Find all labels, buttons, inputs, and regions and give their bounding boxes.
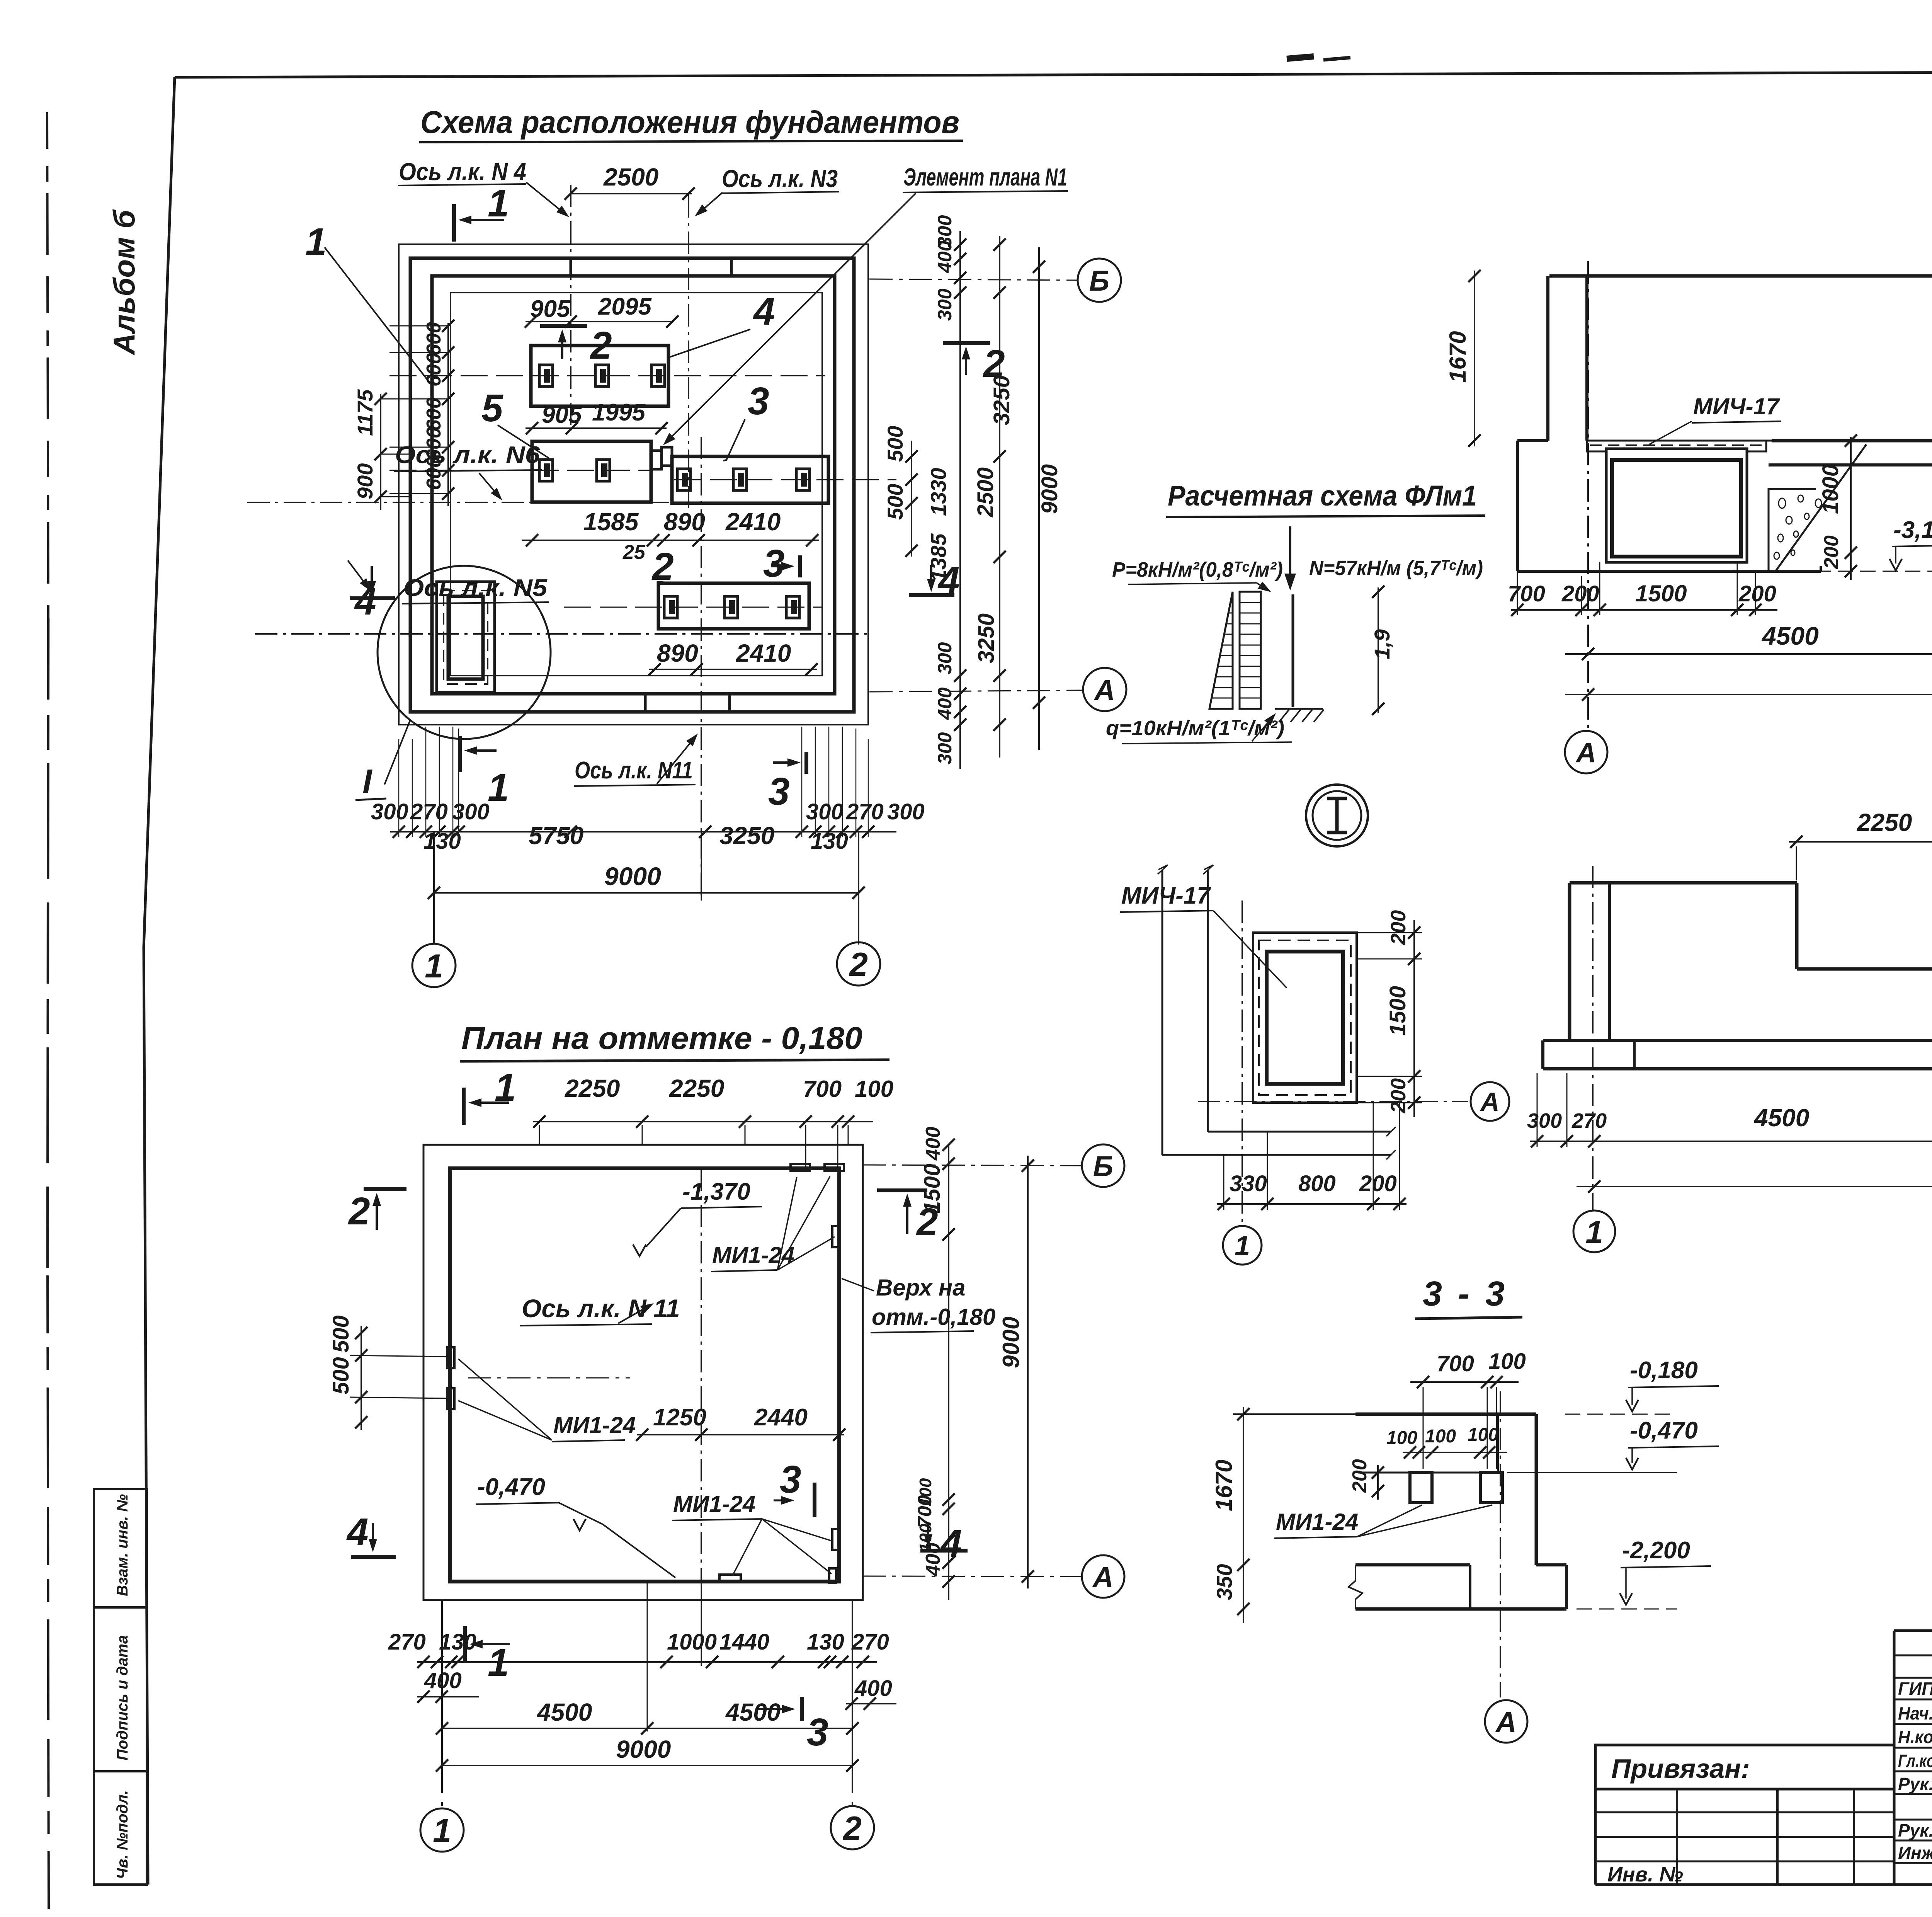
svg-text:700: 700	[803, 1076, 842, 1102]
svg-text:МИЧ-17: МИЧ-17	[1693, 393, 1780, 419]
horizontal axis el3	[674, 479, 896, 480]
svg-text:1670: 1670	[1211, 1460, 1237, 1511]
horizontal axis el2	[564, 607, 823, 608]
svg-text:600: 600	[423, 456, 445, 490]
svg-text:1385: 1385	[926, 533, 951, 582]
svg-text:4: 4	[753, 290, 775, 333]
s33 level -2,200	[1577, 1537, 1711, 1609]
detail I marker	[1306, 785, 1368, 846]
detail walls vertical	[1158, 865, 1213, 1155]
s22 dims row1	[1527, 1073, 1932, 1147]
right dim col 2	[926, 215, 966, 769]
svg-text:400: 400	[854, 1676, 892, 1701]
svg-text:2500: 2500	[973, 467, 998, 518]
sidebar cell Инв.№подл.	[94, 1771, 147, 1885]
privyazan grid	[1595, 1789, 1894, 1885]
svg-text:400: 400	[934, 240, 956, 273]
plan outer wall line	[399, 244, 868, 725]
svg-text:2250: 2250	[1857, 809, 1912, 836]
svg-text:9000: 9000	[604, 862, 661, 890]
svg-text:100: 100	[1488, 1349, 1526, 1374]
svg-text:600: 600	[423, 353, 445, 386]
svg-text:270: 270	[410, 799, 448, 824]
svg-text:890: 890	[664, 508, 705, 536]
svg-text:2: 2	[590, 324, 612, 367]
svg-text:1: 1	[1235, 1231, 1250, 1262]
svg-text:-3,100: -3,100	[1893, 517, 1932, 543]
s22 footing verticals	[1543, 1040, 1932, 1069]
bp bottom dims 400s	[417, 1668, 896, 1710]
load arrow N	[1284, 526, 1296, 591]
svg-text:800: 800	[1298, 1171, 1336, 1196]
svg-text:1585: 1585	[583, 508, 639, 536]
svg-text:1995: 1995	[592, 399, 646, 426]
heading Схема расположения фундаментов	[419, 105, 963, 142]
svg-text:300: 300	[806, 799, 844, 824]
plan wall thick inner	[432, 276, 835, 694]
horizontal axis el4	[389, 375, 825, 376]
axis line 2 below plan	[858, 832, 859, 945]
pit МИЧ-17 plan box	[437, 582, 495, 692]
svg-text:400: 400	[922, 1127, 944, 1161]
s33 top line	[1233, 1413, 1536, 1415]
title block signature grid	[1894, 1631, 1932, 1885]
section mark 1 bottom bp	[465, 1626, 510, 1684]
axis label Ось л.к.N4	[398, 158, 569, 217]
element 3 rect	[662, 447, 828, 503]
svg-text:I: I	[362, 762, 372, 800]
plan inner wall line	[451, 293, 822, 676]
drawing frame left border	[144, 77, 175, 1885]
svg-text:Гл.констр: Гл.констр	[1898, 1751, 1932, 1771]
svg-text:Б: Б	[1093, 1150, 1113, 1182]
bp axis extensions	[442, 1582, 852, 1808]
svg-text:300: 300	[1527, 1109, 1562, 1132]
svg-text:270: 270	[388, 1629, 426, 1655]
bottom dim cluster row	[371, 799, 925, 854]
bp horizontal axis stub	[468, 1377, 630, 1379]
dim 1,9	[1370, 586, 1394, 715]
svg-text:1500: 1500	[920, 1164, 945, 1214]
privyazan box	[1595, 1745, 1894, 1789]
bottom dim extension lines	[399, 727, 868, 837]
svg-text:2250: 2250	[669, 1074, 724, 1102]
s33 axis circle А	[1485, 1700, 1527, 1743]
section mark 2 left bp	[348, 1189, 406, 1233]
dim 905 2095	[525, 293, 679, 328]
svg-text:P=8кН/м²(0,8ᵀᶜ/м²): P=8кН/м²(0,8ᵀᶜ/м²)	[1112, 558, 1283, 581]
axis circle Б top plan	[869, 259, 1121, 302]
axis circle 1 top plan	[412, 944, 456, 987]
detail tub inner	[1267, 952, 1343, 1084]
bottom plan top dims	[533, 1074, 893, 1171]
section mark 3 inside bp	[774, 1458, 815, 1517]
svg-text:А: А	[1092, 1561, 1113, 1593]
title block role/name texts	[1898, 1677, 1932, 1863]
detail dim right	[1357, 910, 1422, 1117]
s22 left pier	[1570, 883, 1609, 1040]
svg-text:300: 300	[887, 799, 925, 824]
bottom dim 9000 row	[428, 862, 865, 899]
album label	[107, 209, 141, 356]
s11 bottom slab	[1769, 441, 1932, 465]
section mark 4 right	[909, 559, 960, 602]
svg-text:А: А	[1480, 1087, 1499, 1117]
bp МИ1-24 b	[458, 1359, 636, 1442]
bp wall plate bottom	[719, 1575, 741, 1582]
wall column line	[1292, 594, 1294, 707]
axis label Ось л.к.N11	[574, 734, 698, 786]
svg-text:1500: 1500	[1385, 986, 1410, 1036]
svg-text:МИЧ-17: МИЧ-17	[1121, 882, 1211, 909]
bp axis circle Б	[863, 1144, 1124, 1187]
svg-text:Взам. инв. №: Взам. инв. №	[114, 1494, 131, 1596]
bp dim 1250 2440	[636, 1404, 845, 1441]
detail axis vertical	[1242, 901, 1243, 1223]
left dim column 600s	[423, 320, 454, 506]
bp level -0,470	[476, 1474, 675, 1578]
svg-text:200: 200	[1820, 535, 1843, 569]
s22 dim 2250 2250	[1789, 808, 1932, 880]
svg-text:5750: 5750	[529, 822, 583, 850]
svg-text:МИ1-24: МИ1-24	[673, 1491, 755, 1517]
svg-text:130: 130	[807, 1629, 844, 1655]
inventory label	[1607, 1863, 1683, 1886]
svg-text:1: 1	[305, 220, 327, 264]
svg-text:Рук.гр.: Рук.гр.	[1898, 1820, 1932, 1840]
svg-text:2: 2	[849, 946, 868, 983]
section mark 1 top bp	[464, 1066, 516, 1125]
heading 3-3	[1415, 1275, 1522, 1319]
s33 dim 700 100	[1410, 1349, 1526, 1469]
bottom plan inner wall	[450, 1168, 839, 1582]
svg-text:300: 300	[371, 799, 408, 824]
s11 pit walls	[1517, 441, 1821, 571]
paper scan left edge	[47, 112, 49, 1909]
axis circle 2 top plan	[837, 942, 880, 986]
svg-text:Расчетная схема ФЛм1: Расчетная схема ФЛм1	[1168, 480, 1477, 512]
svg-text:ГИП: ГИП	[1898, 1679, 1932, 1699]
s33 bottom	[1355, 1565, 1566, 1609]
svg-text:100: 100	[1386, 1428, 1417, 1448]
svg-text:Верх на: Верх на	[876, 1275, 966, 1301]
s33 anchors	[1410, 1473, 1502, 1503]
svg-text:1670: 1670	[1445, 331, 1471, 383]
bp МИ1-24 c	[672, 1491, 832, 1576]
svg-text:1000: 1000	[1818, 464, 1843, 514]
detail tub mid dashed	[1259, 940, 1351, 1095]
s33 body right	[1536, 1414, 1566, 1609]
dim row 1585 890 2410	[522, 508, 819, 564]
detail dims bottom	[1217, 1103, 1406, 1210]
drawing frame top border	[175, 70, 1932, 77]
svg-text:1: 1	[433, 1812, 451, 1849]
svg-text:300: 300	[934, 732, 956, 764]
s33 axis	[1500, 1391, 1501, 1697]
s22 recess	[1797, 883, 1932, 969]
ground hatch	[1275, 709, 1324, 722]
svg-text:100: 100	[855, 1076, 893, 1102]
s33 МИ1-24 label	[1274, 1505, 1492, 1538]
s11 left wall	[1548, 276, 1587, 441]
svg-text:300: 300	[934, 642, 956, 674]
dim row 890 2410 el2	[648, 639, 818, 676]
svg-text:2: 2	[348, 1190, 370, 1233]
svg-text:4500: 4500	[725, 1698, 781, 1726]
svg-text:500: 500	[328, 1357, 354, 1394]
svg-text:1250: 1250	[653, 1404, 706, 1431]
axis circle А top plan	[869, 668, 1126, 711]
svg-text:q=10кН/м²(1ᵀᶜ/м²): q=10кН/м²(1ᵀᶜ/м²)	[1106, 717, 1284, 740]
label 3 leader	[723, 380, 769, 461]
svg-text:2410: 2410	[736, 639, 791, 667]
s11 dim 1000 200	[1818, 434, 1857, 580]
s11 tub flange dashes	[1587, 441, 1766, 451]
right dim col 3	[973, 236, 1014, 758]
svg-text:4500: 4500	[1753, 1104, 1809, 1132]
label 2 leader	[651, 545, 692, 588]
svg-text:330: 330	[1230, 1171, 1267, 1196]
svg-text:МИ1-24: МИ1-24	[553, 1412, 636, 1438]
svg-text:100: 100	[1425, 1426, 1456, 1447]
svg-text:Рук.гр.: Рук.гр.	[1898, 1774, 1932, 1794]
load label N	[1309, 557, 1483, 580]
svg-text:600: 600	[423, 322, 445, 356]
heading Расчетная схема	[1166, 480, 1485, 517]
axis label Ось л.к.N5	[348, 560, 549, 604]
section mark 2 top-left	[540, 324, 612, 367]
svg-text:1: 1	[488, 766, 509, 809]
label Элемент плана N1	[663, 163, 1068, 445]
s11 dim 9000	[1565, 664, 1932, 701]
svg-text:130: 130	[439, 1629, 476, 1655]
svg-text:Элемент плана N1: Элемент плана N1	[903, 163, 1067, 191]
section mark 4 right bp	[920, 1522, 968, 1565]
svg-text:N=57кН/м (5,7ᵀᶜ/м): N=57кН/м (5,7ᵀᶜ/м)	[1309, 557, 1483, 580]
svg-text:-0,470: -0,470	[477, 1474, 545, 1500]
load label P	[1112, 558, 1283, 592]
svg-text:1500: 1500	[1635, 581, 1687, 606]
svg-text:270: 270	[846, 799, 884, 824]
svg-text:1175: 1175	[353, 389, 377, 436]
svg-text:Привязан:: Привязан:	[1611, 1754, 1750, 1784]
svg-text:4: 4	[346, 1510, 369, 1554]
svg-text:МИ1-24: МИ1-24	[1276, 1509, 1358, 1535]
s33 left break	[1349, 1565, 1362, 1609]
s33 dim 200	[1349, 1459, 1384, 1500]
svg-text:-0,470: -0,470	[1630, 1417, 1698, 1444]
bp bottom dims row1	[388, 1629, 889, 1668]
s11 axis circle А	[1565, 731, 1607, 773]
detail МИЧ-17 label	[1120, 882, 1287, 988]
svg-text:130: 130	[423, 829, 461, 854]
svg-text:300: 300	[452, 799, 490, 824]
detail walls horizontal	[1162, 1127, 1396, 1159]
svg-text:3250: 3250	[719, 822, 774, 850]
svg-text:300: 300	[934, 288, 956, 321]
s22 footing bottom line	[1543, 1067, 1932, 1071]
s11 axis lines	[1588, 246, 1932, 730]
axis N11 line	[701, 437, 702, 901]
svg-text:200: 200	[1387, 910, 1410, 945]
svg-text:3: 3	[748, 380, 769, 423]
top center registration mark	[1287, 56, 1350, 60]
bp wall plates left	[350, 1347, 454, 1409]
svg-text:700: 700	[1437, 1351, 1474, 1376]
svg-text:2: 2	[842, 1810, 862, 1847]
s11 МИЧ-17 label	[1649, 393, 1781, 444]
bp axis N11	[701, 1168, 702, 1582]
section mark 1 bottom	[460, 736, 509, 809]
svg-text:350: 350	[1212, 1564, 1236, 1600]
svg-text:Инв. №: Инв. №	[1607, 1863, 1683, 1886]
svg-text:1000: 1000	[667, 1629, 717, 1655]
svg-text:Альбом б: Альбом б	[107, 209, 141, 356]
detail label I	[355, 720, 410, 800]
svg-text:Ось л.к. N6: Ось л.к. N6	[395, 442, 540, 468]
element 4 rect	[531, 346, 668, 406]
s33 dim 1670 350	[1211, 1407, 1250, 1623]
detail tub outer	[1253, 933, 1357, 1103]
svg-text:Подпись и дата: Подпись и дата	[114, 1635, 131, 1760]
axis N3 line	[688, 195, 689, 518]
detail axis circle А	[1471, 1082, 1509, 1121]
section mark 3 top	[763, 542, 800, 585]
bp right dim 9000	[998, 1156, 1034, 1588]
svg-text:Н.контр.: Н.контр.	[1898, 1727, 1932, 1747]
svg-text:4500: 4500	[536, 1698, 592, 1726]
svg-text:1: 1	[488, 182, 509, 225]
svg-text:1440: 1440	[719, 1629, 769, 1655]
svg-text:905: 905	[530, 296, 571, 322]
svg-text:3 - 3: 3 - 3	[1423, 1275, 1508, 1313]
bp bottom dims row2	[436, 1698, 859, 1735]
section mark 4 left	[350, 566, 395, 623]
s11 top slab line	[1549, 274, 1932, 278]
svg-text:200: 200	[1387, 1078, 1410, 1113]
svg-text:270: 270	[851, 1629, 889, 1655]
svg-text:500: 500	[883, 484, 907, 520]
svg-text:1330: 1330	[926, 468, 951, 516]
axis N6 line	[247, 502, 827, 503]
detail axis horizontal	[1198, 1101, 1468, 1102]
element 2 rect	[658, 583, 809, 629]
svg-text:3250: 3250	[989, 375, 1014, 425]
bp МИ1-24 a	[711, 1176, 835, 1272]
svg-text:-0,180: -0,180	[1630, 1357, 1698, 1384]
svg-text:9000: 9000	[1037, 464, 1062, 514]
label 1 leader	[305, 220, 432, 386]
section mark 2 top-right	[943, 342, 1005, 385]
section mark 1 top	[454, 182, 509, 242]
s22 axis circle 1	[1573, 1210, 1615, 1252]
s11 tub outer	[1606, 449, 1747, 562]
svg-text:Схема расположения фундамент: Схема расположения фундаментов	[420, 105, 959, 140]
dim 905 1995	[526, 399, 668, 434]
bp axis circle А	[863, 1555, 1124, 1598]
svg-text:1: 1	[495, 1066, 516, 1109]
axis N5 line	[255, 633, 869, 635]
bp left dim 500s	[328, 1315, 367, 1430]
svg-text:Ось л.к. N3: Ось л.к. N3	[722, 165, 838, 192]
right dim 500 500	[883, 426, 918, 557]
axis line 1 below plan	[434, 832, 701, 945]
svg-text:4500: 4500	[1761, 621, 1819, 650]
bp wall plates top	[791, 1164, 844, 1171]
svg-text:2250: 2250	[565, 1074, 620, 1102]
svg-text:Нач.отд.: Нач.отд.	[1898, 1703, 1932, 1723]
svg-text:3: 3	[768, 770, 790, 813]
svg-text:отм.-0,180: отм.-0,180	[872, 1304, 995, 1330]
svg-text:100: 100	[916, 1478, 935, 1507]
s11 level -3,100	[1793, 517, 1932, 571]
svg-text:5: 5	[481, 386, 503, 430]
s11 dim 1670	[1445, 270, 1481, 447]
axis label Ось л.к.N3	[695, 165, 839, 216]
bp right dim col	[914, 1127, 955, 1600]
s33 level -0,180	[1565, 1357, 1719, 1414]
svg-text:200: 200	[1359, 1171, 1397, 1196]
svg-text:2500: 2500	[603, 163, 658, 191]
svg-text:900: 900	[353, 463, 377, 499]
s11 ledge line	[1517, 440, 1932, 442]
triangular load diagram	[1209, 592, 1233, 709]
svg-text:270: 270	[1571, 1109, 1607, 1132]
element 5 rect	[532, 441, 662, 502]
svg-text:600: 600	[423, 397, 445, 431]
sidebar cell Подпись и дата	[94, 1607, 147, 1771]
svg-text:2440: 2440	[754, 1404, 808, 1431]
s11 dim 4500 4500	[1565, 621, 1932, 660]
svg-text:200: 200	[1349, 1459, 1371, 1493]
svg-text:Чв. №подл.: Чв. №подл.	[114, 1790, 131, 1879]
svg-text:200: 200	[1738, 581, 1776, 606]
svg-text:А: А	[1575, 737, 1596, 768]
left dim column 1175 900	[353, 389, 387, 510]
detail axis circle 1	[1223, 1226, 1262, 1265]
bp label Ось л.к.N11	[520, 1294, 680, 1326]
bp axis circle 2	[831, 1806, 874, 1849]
detail circle I	[378, 566, 551, 739]
svg-text:400: 400	[934, 687, 956, 720]
load label q	[1106, 713, 1292, 744]
section mark 2 right bp	[877, 1190, 938, 1244]
section mark 3 below bp	[758, 1697, 828, 1754]
svg-text:-1,370: -1,370	[682, 1178, 750, 1205]
s11 concrete wedge	[1769, 444, 1866, 571]
svg-text:100: 100	[1468, 1425, 1498, 1445]
dim 2500 top	[565, 163, 695, 200]
s33 ledge line	[1358, 1415, 1498, 1473]
section mark 3 bottom	[768, 752, 806, 813]
svg-text:-2,200: -2,200	[1622, 1537, 1690, 1564]
s22 footing top line	[1543, 1039, 1932, 1042]
s33 level -0,470	[1507, 1417, 1719, 1473]
svg-text:3: 3	[807, 1711, 828, 1754]
s22 axes	[1593, 866, 1932, 1210]
svg-text:3: 3	[780, 1458, 801, 1501]
axis label Ось л.к.N6	[394, 442, 542, 501]
svg-text:Б: Б	[1089, 265, 1109, 297]
svg-text:Инженер: Инженер	[1898, 1843, 1932, 1863]
svg-text:План на отметке - 0,180: План на отметке - 0,180	[461, 1021, 862, 1056]
svg-text:А: А	[1495, 1706, 1516, 1738]
plan wall thick outer	[410, 258, 854, 712]
horizontal axis el5	[389, 470, 653, 471]
svg-text:2410: 2410	[725, 508, 781, 536]
sidebar cell Взам.инв.№	[94, 1489, 147, 1607]
wall block joints	[571, 258, 731, 712]
